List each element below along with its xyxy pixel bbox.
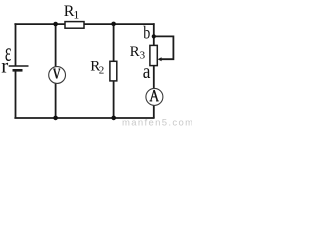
svg-text:manfen5.com: manfen5.com — [122, 117, 192, 127]
svg-text:b: b — [143, 24, 150, 43]
svg-text:2: 2 — [99, 64, 105, 76]
svg-text:r: r — [1, 53, 8, 77]
svg-text:1: 1 — [73, 8, 79, 22]
svg-text:a: a — [143, 60, 151, 83]
svg-text:R: R — [130, 44, 140, 60]
